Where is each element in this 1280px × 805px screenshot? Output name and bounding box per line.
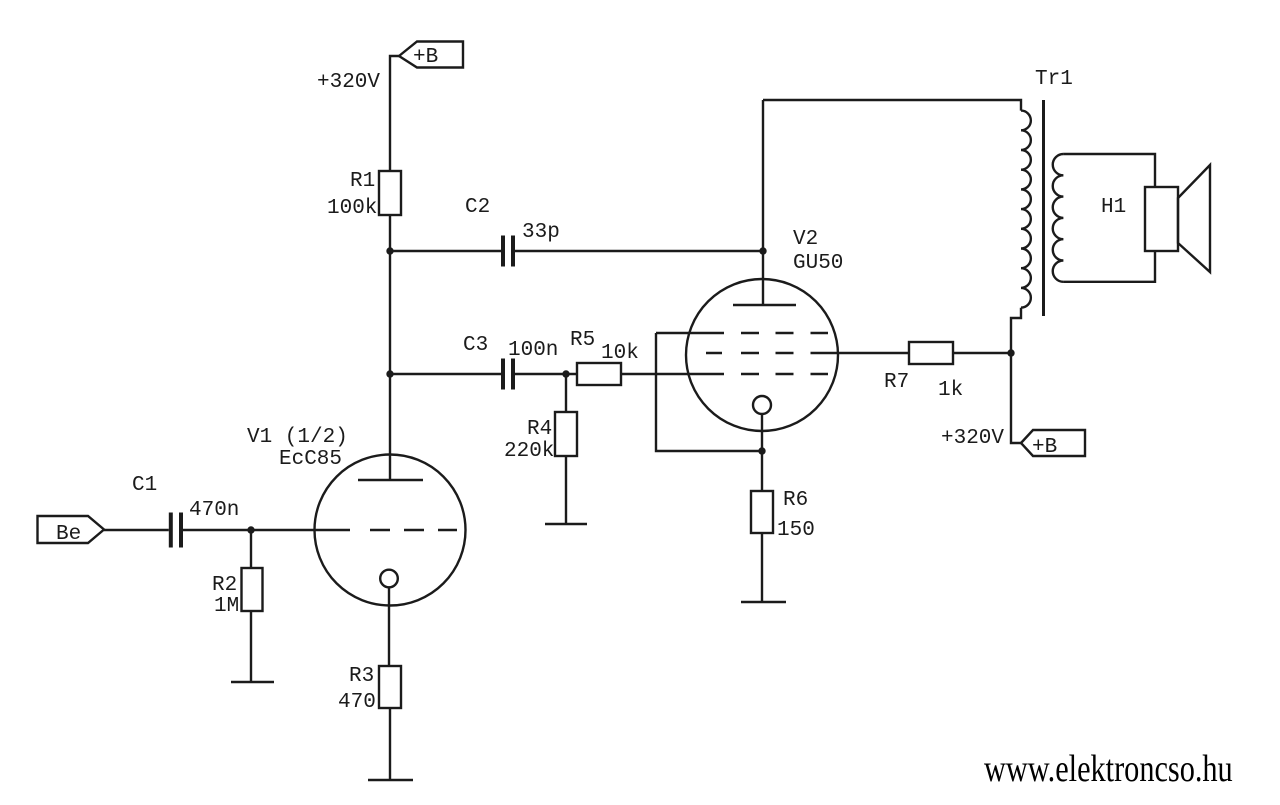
svg-text:V1 (1/2): V1 (1/2) <box>247 426 348 449</box>
svg-text:GU50: GU50 <box>793 252 843 275</box>
svg-text:H1: H1 <box>1101 196 1126 219</box>
svg-text:V2: V2 <box>793 228 818 251</box>
svg-text:C1: C1 <box>132 474 157 497</box>
svg-text:R1: R1 <box>350 170 375 193</box>
wire C1 to V1 grid <box>183 529 350 531</box>
wire Tr1 secondary top to H1 <box>1063 154 1155 187</box>
wire g3-cathode bracket <box>656 333 762 451</box>
speaker H1 <box>1101 165 1210 272</box>
svg-text:150: 150 <box>777 519 815 542</box>
wire R5 to V2 grid g1 <box>621 373 724 375</box>
svg-text:+320V: +320V <box>317 71 380 94</box>
svg-text:1M: 1M <box>214 595 239 618</box>
svg-text:R3: R3 <box>349 665 374 688</box>
capacitor C1 <box>132 474 239 548</box>
pentode V2 <box>656 228 843 431</box>
ground (R4) <box>545 523 587 525</box>
capacitor C3 <box>463 334 558 390</box>
power flag +B (top) <box>399 42 463 70</box>
wire to +B flag (right) <box>1011 353 1021 443</box>
resistor R5 <box>570 329 639 385</box>
svg-text:+B: +B <box>1032 436 1057 459</box>
svg-text:www.elektroncso.hu: www.elektroncso.hu <box>984 748 1233 790</box>
resistor R3 <box>338 665 401 780</box>
svg-text:C2: C2 <box>465 196 490 219</box>
svg-text:+B: +B <box>413 46 438 69</box>
wire V2 cathode to R6 <box>761 414 763 491</box>
resistor R1 <box>327 170 401 220</box>
node junction cathode/bracket <box>758 447 765 454</box>
wire Tr1 primary bottom to node <box>1011 308 1021 353</box>
svg-text:220k: 220k <box>504 440 554 463</box>
node junction at R1/C2 <box>386 247 393 254</box>
wire V2 plate to Tr1 primary <box>763 100 1021 111</box>
wire V1 cathode to R3 <box>388 587 390 666</box>
svg-text:C3: C3 <box>463 334 488 357</box>
wire R7 to +B node <box>953 352 1011 354</box>
wire to C3 <box>390 373 501 375</box>
wire Be to C1 <box>104 529 169 531</box>
svg-text:Be: Be <box>56 523 81 546</box>
input flag Be <box>38 516 105 546</box>
capacitor C2 <box>465 196 560 267</box>
triode V1 <box>247 426 466 606</box>
power flag +B (right) <box>1021 430 1085 459</box>
node junction C2/plate wire <box>759 247 766 254</box>
svg-text:10k: 10k <box>601 342 639 365</box>
ground (R3) <box>368 779 413 781</box>
svg-text:EcC85: EcC85 <box>279 448 342 471</box>
svg-text:R7: R7 <box>884 371 909 394</box>
svg-text:100n: 100n <box>508 339 558 362</box>
svg-text:470: 470 <box>338 691 376 714</box>
resistor R4 <box>504 374 577 524</box>
node junction R7/Tr1/+B <box>1007 349 1014 356</box>
wire to C2 <box>390 250 501 252</box>
svg-text:Tr1: Tr1 <box>1035 68 1073 91</box>
resistor R7 <box>884 342 963 402</box>
svg-text:R6: R6 <box>783 489 808 512</box>
ground (R2) <box>231 681 274 683</box>
wire R1 to V1 plate <box>389 215 391 480</box>
wire +B to R1 <box>390 56 399 171</box>
node junction at C3 tap <box>386 370 393 377</box>
svg-text:1k: 1k <box>938 379 963 402</box>
svg-text:470n: 470n <box>189 499 239 522</box>
svg-text:+320V: +320V <box>941 427 1004 450</box>
wire C3 to R5 <box>515 373 577 375</box>
svg-text:100k: 100k <box>327 197 377 220</box>
wire C2 to V2 plate node <box>515 250 763 252</box>
ground (R6) <box>741 601 786 603</box>
svg-text:33p: 33p <box>522 221 560 244</box>
wire g2 to R7 <box>811 352 910 354</box>
resistor R6 <box>751 489 815 602</box>
svg-text:R2: R2 <box>212 574 237 597</box>
svg-text:R5: R5 <box>570 329 595 352</box>
wire V2 plate up <box>762 100 764 305</box>
node junction C1/R2 <box>247 526 254 533</box>
transformer Tr1 <box>1021 68 1073 316</box>
wire Tr1 secondary bottom to H1 <box>1063 251 1155 282</box>
svg-text:R4: R4 <box>527 418 552 441</box>
node junction C3/R4/R5 <box>562 370 569 377</box>
resistor R2 <box>212 530 263 682</box>
